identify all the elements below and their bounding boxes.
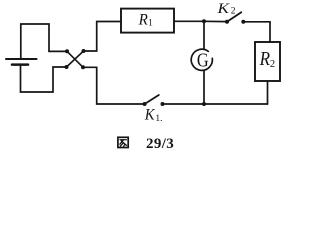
wire node A down to galvanometer [203,21,205,49]
wire node A to switch K2 [204,20,227,22]
wire stub to commutator upper-left contact [49,50,67,52]
wire upper-right contact up to top rail [84,22,122,52]
wire battery positive to top-left corner [21,24,49,58]
commutator cross-wire upper-left to lower-right [67,51,83,67]
commutator cross-wire upper-right to lower-left [67,51,84,67]
svg-text:1.: 1. [155,114,162,124]
switch K2 [225,12,245,24]
label G [197,50,209,71]
caption figure number 29/3 [146,136,174,152]
resistor R1 [121,9,174,33]
label R2 value [259,49,275,70]
node upper-left contact of commutator S [65,49,69,53]
svg-text:K: K [216,1,230,17]
svg-text:29/3: 29/3 [146,136,174,152]
wire R2 bottom to bottom rail [267,81,269,104]
wire K2 to R2 top [243,22,270,42]
wire node B to switch K1 right contact [163,103,205,105]
label K2 [216,1,235,17]
battery B [6,59,37,65]
svg-text:1: 1 [148,19,153,29]
wire K1 left contact to lower-right contact of commutator [83,67,145,104]
wire R1 to node A [174,20,204,22]
svg-text:2: 2 [270,59,275,70]
wire battery negative to lower-left contact [21,65,67,92]
svg-text:K: K [144,107,156,124]
galvanometer G [191,49,212,70]
node lower-left contact of commutator S [65,65,69,69]
wire galvanometer to node B [203,71,205,105]
switch K1 [143,95,165,106]
wire bottom rail right segment [204,103,268,105]
node lower-right contact of commutator S [81,65,85,69]
svg-text:R: R [138,11,149,28]
caption hanzi tu (figure) [118,137,128,147]
label K1 [144,107,163,125]
node B bottom junction [202,102,206,106]
node A top junction [202,19,206,23]
svg-text:2: 2 [231,7,236,17]
svg-text:G: G [197,50,209,71]
node upper-right contact of commutator S [82,49,86,53]
svg-text:R: R [259,49,270,70]
resistor R2 [255,42,280,81]
label R1 value [138,11,153,28]
